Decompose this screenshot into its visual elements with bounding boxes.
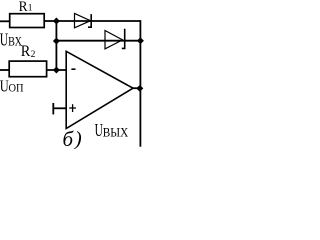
svg-text:1: 1 xyxy=(28,4,33,14)
svg-text:): ) xyxy=(74,128,82,150)
svg-text:R: R xyxy=(21,44,31,61)
svg-text:U: U xyxy=(95,122,103,141)
svg-text:2: 2 xyxy=(31,50,36,60)
svg-text:б: б xyxy=(63,127,75,150)
svg-text:ОП: ОП xyxy=(8,82,23,95)
svg-text:U: U xyxy=(0,31,8,50)
svg-text:R: R xyxy=(19,0,28,15)
svg-text:ВЫХ: ВЫХ xyxy=(103,125,129,140)
svg-text:ВХ: ВХ xyxy=(8,35,22,48)
